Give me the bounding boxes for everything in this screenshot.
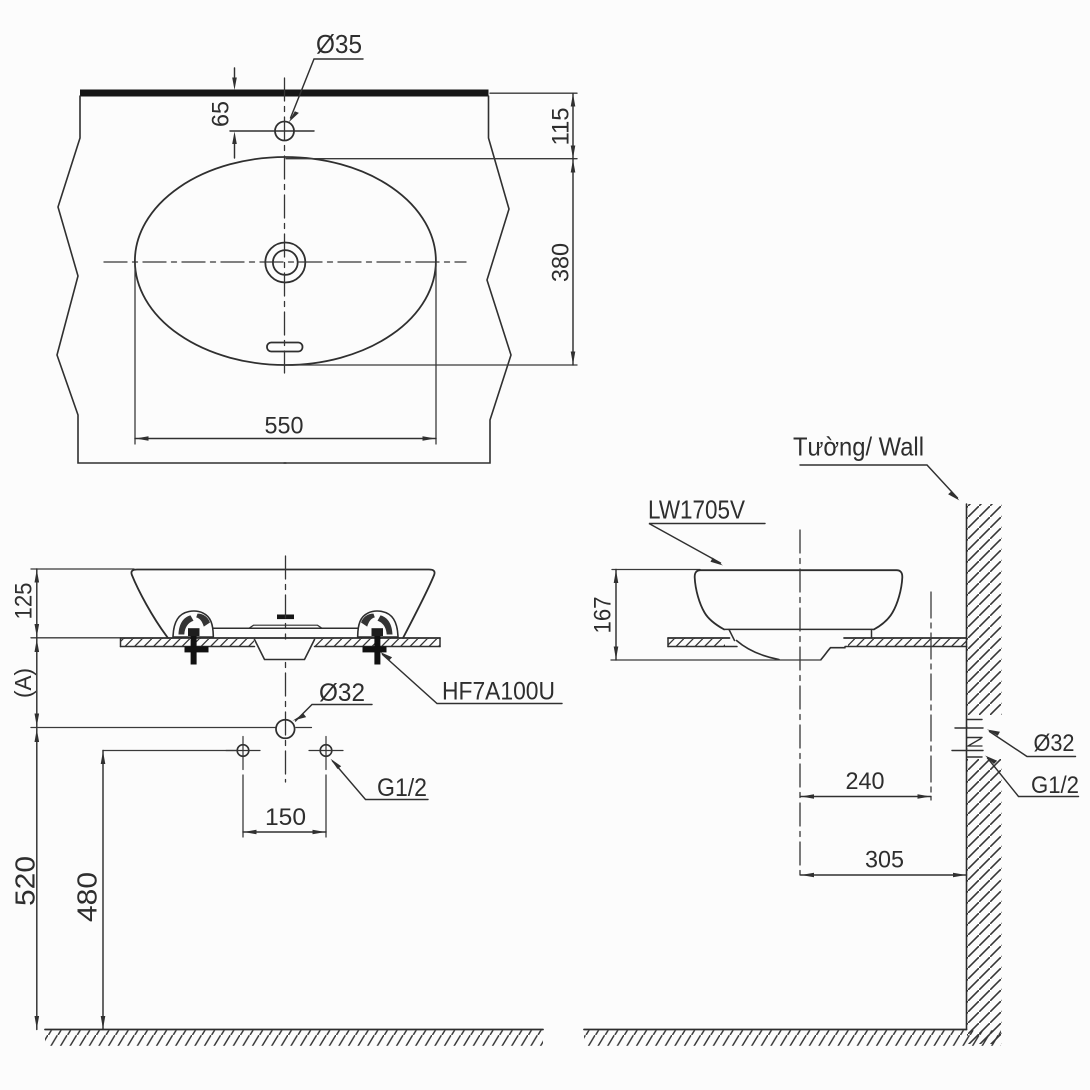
counter back edge (thick)	[80, 90, 489, 97]
dim 305 line	[801, 874, 967, 876]
dim 480 extension	[103, 750, 238, 752]
dim 550 left extension	[134, 264, 136, 444]
svg-text:480: 480	[72, 872, 103, 922]
centerline horizontal	[104, 261, 466, 263]
dim 520 line	[36, 729, 38, 1030]
side counter hatch left	[668, 638, 725, 646]
dim 480 line	[102, 751, 104, 1030]
dim 550 line	[135, 438, 436, 440]
wall face line	[966, 504, 968, 1030]
counter top line	[121, 637, 441, 639]
front bowl flange line	[174, 627, 397, 629]
side foot right edge	[871, 630, 873, 638]
dim 125 line	[36, 569, 38, 638]
dim 65 line at faucet center	[230, 130, 314, 132]
supply hole left	[237, 745, 249, 757]
svg-text:305: 305	[865, 847, 904, 874]
label LW1705V leader	[649, 524, 765, 564]
dim 65 upper extension and arrow	[234, 68, 236, 78]
dim 150 left extension	[242, 775, 244, 837]
floor line right	[584, 1029, 967, 1031]
svg-text:G1/2: G1/2	[377, 774, 427, 802]
counter break outline right	[284, 96, 511, 463]
drain pipe stub bottom	[967, 737, 982, 739]
svg-text:240: 240	[846, 768, 885, 795]
svg-text:125: 125	[11, 583, 38, 620]
dim 240 wall-side extension	[930, 592, 932, 800]
side counter bottom line left	[668, 646, 737, 648]
floor line left	[45, 1029, 543, 1031]
supply hole left axis vertical	[242, 737, 244, 770]
side centerline	[799, 530, 801, 875]
counter hatch left	[121, 638, 255, 646]
supply hole right axis horizontal	[309, 750, 343, 752]
extension line counter level	[31, 637, 120, 639]
side bowl foot line	[724, 628, 874, 630]
svg-text:150: 150	[265, 804, 306, 831]
side foot left edge	[729, 630, 735, 641]
svg-text:520: 520	[10, 856, 41, 906]
svg-text:Ø32: Ø32	[319, 679, 365, 707]
dim 240 line	[801, 796, 932, 798]
label G12 side leader	[988, 758, 1079, 797]
water level mark	[277, 615, 294, 620]
extension line ellipse top	[286, 158, 577, 160]
label O35 leader	[291, 59, 364, 118]
front centerline	[285, 556, 287, 782]
drain inner circle	[273, 250, 298, 275]
label G12 front leader	[333, 761, 429, 800]
svg-text:LW1705V: LW1705V	[648, 495, 746, 525]
side counter bottom line right	[845, 646, 967, 648]
extension line ellipse bottom	[286, 364, 577, 366]
supply hole left axis horizontal	[226, 750, 260, 752]
dim 65 lower arrow	[234, 144, 236, 158]
side counter hatch right	[848, 638, 967, 646]
side top extension line	[612, 569, 700, 571]
drain hub step line	[249, 625, 322, 628]
drain hole front	[276, 720, 295, 739]
svg-text:Tường/ Wall: Tường/ Wall	[793, 432, 924, 462]
front top extension line	[31, 568, 134, 570]
svg-text:(A): (A)	[10, 668, 36, 698]
label O32 front leader	[296, 705, 373, 722]
wall hatch	[967, 504, 1002, 1044]
dim 380 line	[572, 159, 574, 365]
dim 115 line	[572, 93, 574, 159]
side drain boss curve	[737, 641, 780, 660]
counter hatch right	[315, 638, 440, 646]
svg-text:Ø32: Ø32	[1034, 730, 1075, 757]
svg-text:167: 167	[590, 597, 617, 634]
counter left edge	[120, 638, 122, 647]
drain pipe stub axis	[955, 727, 983, 729]
supply hole right	[320, 745, 332, 757]
extension line drain level	[31, 727, 276, 729]
dim 550 right extension	[435, 264, 437, 444]
dim 150 line	[243, 831, 326, 833]
overflow slot	[267, 343, 303, 352]
dim 167 bottom extension	[611, 659, 821, 661]
svg-text:G1/2: G1/2	[1031, 772, 1079, 799]
dim 150 right extension	[325, 775, 327, 837]
label HF7A100U leader	[383, 655, 563, 704]
svg-text:Ø35: Ø35	[316, 29, 362, 59]
label Tuong Wall leader	[800, 465, 958, 498]
svg-text:HF7A100U: HF7A100U	[442, 678, 555, 706]
counter bottom line left	[121, 646, 255, 648]
extension line top right	[490, 92, 577, 94]
side counter top line left	[668, 637, 730, 639]
svg-text:115: 115	[548, 108, 575, 146]
pipe break mark	[968, 739, 982, 747]
basin rim ellipse	[135, 157, 436, 365]
label O32 side leader	[990, 732, 1076, 757]
drain hole axis right dash	[296, 727, 312, 729]
drain pipe stub top	[967, 719, 982, 721]
svg-text:65: 65	[208, 101, 235, 127]
supply pipe stub axis	[952, 750, 983, 752]
faucet hole	[275, 122, 294, 141]
side drain boss right edge	[821, 648, 845, 660]
front bowl outline	[131, 570, 434, 639]
floor hatch right	[584, 1030, 1001, 1046]
dim A line	[36, 638, 38, 728]
drain outer circle	[265, 243, 305, 283]
svg-text:550: 550	[265, 413, 304, 440]
svg-text:380: 380	[548, 243, 575, 282]
drain boss trapezoid	[255, 640, 315, 660]
floor hatch left	[45, 1030, 543, 1046]
side counter top line right	[844, 637, 967, 639]
side bowl outline	[695, 570, 903, 629]
counter bottom line right	[315, 646, 441, 648]
counter right edge	[439, 638, 441, 647]
counter break outline left	[57, 96, 286, 463]
supply pipe stub bottom	[967, 756, 982, 758]
clamp right HF7A100U	[358, 611, 398, 664]
clamp left HF7A100U	[173, 611, 213, 664]
wall pipe window	[967, 715, 1001, 759]
centerline vertical	[284, 78, 286, 373]
side counter left edge	[667, 638, 669, 647]
supply hole right axis vertical	[325, 737, 327, 770]
dim 167 line	[615, 570, 617, 661]
